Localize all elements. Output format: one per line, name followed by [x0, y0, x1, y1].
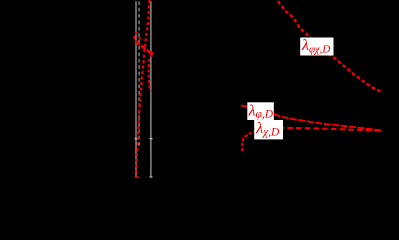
red curve M descending through left structure: [136, 0, 150, 176]
cap tick mid right line: [150, 138, 153, 139]
red curve lambda_phichi,D top right: [278, 1, 381, 92]
white label box lambda_phichi,D: [300, 38, 333, 56]
vertical dashed gray line: [138, 1, 140, 147]
red curve lambda_chi,D left hook: [242, 131, 258, 152]
red bottom hook dash: [135, 176, 139, 178]
white label box lambda_chi,D: [254, 120, 283, 139]
red curve lambda_phi,D: [241, 106, 383, 131]
red branch B bouncing down along right line: [149, 54, 152, 91]
red branch L left of solid line: [134, 32, 137, 42]
white label box lambda_phi,D: [247, 102, 273, 120]
cap tick mid left line: [135, 138, 138, 139]
cap tick bottom right line: [150, 176, 153, 177]
red isolated dash in crossing: [139, 37, 141, 40]
red curve lambda_chi,D horizontal dashes: [270, 128, 383, 131]
red diagonal D crossing to right line: [135, 41, 152, 53]
vertical solid gray line right: [150, 1, 152, 177]
red blob at diagonal end: [150, 52, 153, 55]
vertical solid gray line left: [135, 1, 137, 177]
